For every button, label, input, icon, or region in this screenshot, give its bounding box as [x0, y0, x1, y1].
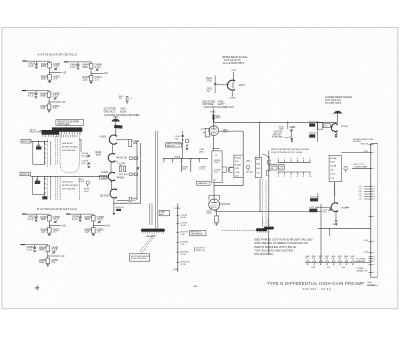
potentiometer R471	[344, 167, 348, 171]
attenuator cell B x10	[22, 214, 67, 236]
scale ruler upper	[278, 161, 311, 163]
svg-text:TO CRT UNIT: TO CRT UNIT	[325, 101, 342, 105]
svg-text:.05 UF: .05 UF	[180, 217, 187, 219]
svg-text:(CATHODE FOLLOWER OUT): (CATHODE FOLLOWER OUT)	[204, 106, 235, 109]
wire box to V474	[334, 182, 336, 196]
svg-text:SIGNAL OUT: SIGNAL OUT	[357, 270, 369, 273]
blue tint block C405	[42, 196, 47, 199]
svg-text:R420A 1M: R420A 1M	[116, 156, 127, 159]
svg-text:INPUT B: INPUT B	[21, 174, 30, 176]
svg-text:IN .05 V/CM POS: IN .05 V/CM POS	[131, 258, 147, 260]
svg-text:4.5-25: 4.5-25	[82, 155, 89, 157]
wire linkage verticals	[155, 131, 157, 229]
resistor R434	[185, 140, 188, 142]
svg-text:2: 2	[290, 158, 291, 160]
svg-text:111K: 111K	[235, 168, 240, 170]
tube V428	[213, 115, 215, 126]
svg-text:4-1.5: 4-1.5	[28, 66, 34, 68]
svg-text:990K: 990K	[85, 219, 91, 221]
svg-text:CATHODE: CATHODE	[202, 103, 214, 106]
svg-text:R418A: R418A	[102, 171, 109, 174]
wire R462 bus vertical	[316, 121, 318, 142]
svg-text:4-1.5: 4-1.5	[28, 96, 34, 98]
switch wafer bar CAL upper	[264, 227, 274, 230]
capacitor C415 pair	[130, 157, 133, 159]
svg-text:R421 R422: R421 R422	[119, 174, 129, 176]
capacitor C463	[318, 123, 323, 130]
svg-text:(GND): (GND)	[173, 269, 179, 271]
svg-text:R440A: R440A	[235, 156, 242, 159]
capacitor C446 on bus	[268, 161, 270, 164]
svg-text:7-45: 7-45	[256, 172, 260, 174]
svg-text:4-25: 4-25	[279, 168, 283, 170]
svg-text:4-1.5: 4-1.5	[70, 67, 76, 69]
tube V414B crescent	[108, 154, 114, 162]
svg-text:3: 3	[373, 168, 374, 170]
svg-text:R481: R481	[312, 256, 316, 258]
caption box RESISTIVE DIVIDER SWITCHES	[56, 120, 84, 126]
svg-text:12AT7: 12AT7	[218, 103, 225, 106]
svg-text:4-1.5: 4-1.5	[27, 250, 33, 252]
capacitor C421 pair	[130, 173, 133, 175]
wire V414B to V418A	[110, 162, 112, 173]
switch box SW440	[234, 155, 243, 178]
transistor V474 crescent	[331, 203, 337, 212]
svg-text:B ATTENUATOR DETAILS: B ATTENUATOR DETAILS	[37, 207, 77, 211]
svg-text:.2-1.5: .2-1.5	[52, 96, 59, 98]
svg-text:A.M.: A.M.	[194, 285, 199, 288]
wire V414A to V414B	[112, 144, 114, 154]
boxed note SEE NOTE	[190, 230, 206, 235]
switch wafer bar SW402 lower	[42, 130, 60, 135]
svg-text:(B) 6DJ8: (B) 6DJ8	[100, 195, 110, 197]
switch envelope B dashed outline	[59, 178, 61, 200]
svg-text:.2-1.5: .2-1.5	[51, 250, 58, 252]
svg-text:R440B: R440B	[235, 165, 242, 167]
svg-text:2: 2	[284, 176, 285, 178]
svg-text:3-12: 3-12	[330, 177, 334, 179]
svg-text:S/N RANGES.: S/N RANGES.	[254, 252, 274, 256]
wire V414A plate right	[116, 139, 129, 141]
wire V474 emitter	[335, 212, 337, 220]
svg-text:X100 POS): X100 POS)	[196, 250, 206, 252]
svg-text:111K: 111K	[40, 108, 46, 110]
tube V418B crescent	[110, 189, 116, 198]
svg-text:(+150V): (+150V)	[229, 98, 236, 100]
svg-text:ATTEN DETAILS: ATTEN DETAILS	[62, 184, 78, 187]
socket pins	[369, 145, 375, 275]
svg-text:111K: 111K	[39, 262, 45, 264]
boxed label C468	[279, 165, 285, 170]
wire cathode V418B	[113, 198, 115, 212]
potentiometers row	[306, 261, 354, 265]
svg-text:(GAIN RANGE): (GAIN RANGE)	[191, 233, 204, 236]
svg-text:(CATHODE COUPLED AMPLIFIER): (CATHODE COUPLED AMPLIFIER)	[104, 114, 140, 117]
wire envelope to C410	[79, 139, 81, 141]
wire time constant bus	[163, 158, 208, 160]
interconnect socket outline	[370, 144, 372, 278]
boxed label R468A	[269, 165, 277, 170]
attenuator cell B x100	[66, 214, 111, 236]
svg-text:GAIN ADJ: GAIN ADJ	[198, 182, 208, 185]
envelope top contact fringe	[62, 135, 77, 138]
svg-text:OUT VIA CF TO: OUT VIA CF TO	[224, 59, 241, 62]
svg-text:INPUT A: INPUT A	[22, 140, 31, 143]
attenuator cell A x100	[64, 61, 109, 83]
svg-text:SEE B1-B2: SEE B1-B2	[62, 182, 73, 184]
svg-text:R480: R480	[305, 256, 309, 258]
capacitor C420 cluster	[115, 161, 121, 166]
attenuator cell A x10	[22, 61, 67, 83]
svg-text:.1 V/CM: .1 V/CM	[173, 208, 181, 210]
svg-text:.05 UF: .05 UF	[180, 225, 187, 227]
svg-text:+100V: +100V	[363, 251, 369, 253]
attenuator cell B x1000	[21, 244, 66, 266]
svg-text:.25 UF: .25 UF	[180, 254, 187, 256]
svg-text:R487: R487	[351, 256, 355, 258]
scale ruler lower	[278, 171, 311, 173]
switch section box V428 cathode	[212, 151, 222, 183]
capacitor C434A	[129, 139, 132, 146]
ground V418B cathode	[113, 212, 116, 214]
svg-text:.2-1.5: .2-1.5	[53, 219, 60, 221]
linkage dashed to cal bar	[222, 229, 256, 231]
transistor Q464 crescent	[331, 124, 337, 132]
svg-text:R444: R444	[256, 159, 260, 161]
resistor R446	[213, 109, 214, 110]
svg-text:R483: R483	[325, 256, 329, 258]
svg-text:+1: +1	[130, 98, 132, 100]
svg-text:(SEL): (SEL)	[246, 160, 251, 162]
svg-text:RESISTOR VALUES SHOWN CHOSEN: RESISTOR VALUES SHOWN CHOSEN	[271, 148, 309, 151]
bracket to divider	[222, 167, 226, 172]
svg-text:.5-3: .5-3	[52, 108, 57, 110]
wire V418A to V418B	[110, 181, 112, 190]
svg-text:UPPER BEAM SIGNAL: UPPER BEAM SIGNAL	[222, 56, 248, 59]
tube V429	[209, 199, 220, 210]
wire pot row baseline	[305, 262, 371, 264]
wire arc SW444 to bus	[262, 154, 270, 160]
svg-text:.1 UF: .1 UF	[180, 234, 186, 236]
connector INPUT B	[20, 172, 31, 176]
wire input B bus	[31, 175, 108, 177]
svg-text:+ 240V: + 240V	[99, 137, 107, 139]
resistor R426 box	[117, 200, 129, 202]
svg-text:C444: C444	[256, 168, 260, 170]
svg-text:R482: R482	[318, 256, 322, 258]
svg-text:R486: R486	[344, 256, 348, 258]
svg-text:111K: 111K	[41, 79, 47, 81]
tube V418A crescent	[108, 172, 114, 180]
capacitor C401 input A	[38, 141, 40, 144]
svg-text:GRID NO.1: GRID NO.1	[104, 112, 117, 114]
svg-text:.5-3: .5-3	[94, 79, 99, 81]
switch line VOLTS/CM	[177, 204, 179, 273]
svg-text:990K: 990K	[82, 67, 88, 69]
svg-text:R484: R484	[331, 256, 335, 258]
wire plate V428 down	[213, 136, 215, 151]
registration cross	[35, 287, 40, 289]
svg-text:990K: 990K	[41, 66, 47, 68]
wire bus to SW444	[259, 122, 261, 157]
svg-text:R470B: R470B	[330, 166, 337, 168]
svg-text:R470A: R470A	[330, 157, 337, 160]
svg-text:A ATTENUATOR DETAILS: A ATTENUATOR DETAILS	[38, 52, 78, 56]
svg-text:.5-3: .5-3	[53, 79, 58, 81]
wire signal to lower beam	[216, 211, 321, 213]
linkage dotted pair SW444 to CAL	[261, 180, 263, 227]
svg-text:S/N 101 - 13.42: S/N 101 - 13.42	[303, 287, 332, 291]
switch contacts input B wafer	[44, 176, 47, 199]
svg-text:100K: 100K	[330, 162, 335, 164]
wire V429 right	[220, 203, 230, 205]
wire SW440 left entry	[229, 168, 234, 172]
boxed label GAIN ADJ switch	[159, 210, 169, 215]
tube V414A crescent	[109, 135, 116, 144]
wire top out bus	[255, 121, 337, 123]
wire switch rotor A	[47, 139, 49, 168]
svg-text:R485: R485	[338, 256, 342, 258]
svg-text:990K: 990K	[39, 250, 45, 252]
wire long mid vertical	[268, 151, 270, 255]
attenuator cell A x1000	[22, 90, 67, 112]
wire Q464 emitter	[335, 131, 338, 134]
svg-text:SWITCHES: SWITCHES	[58, 124, 70, 126]
svg-text:7: 7	[373, 265, 374, 267]
svg-text:R462 47K: R462 47K	[309, 122, 318, 124]
svg-text:6DJ8: 6DJ8	[120, 112, 126, 114]
svg-text:9: 9	[373, 199, 374, 201]
svg-text:V414: V414	[120, 108, 126, 110]
wire mid horizontal	[214, 185, 243, 187]
svg-text:(PLATE BAL): (PLATE BAL)	[272, 136, 283, 139]
svg-text:TYPE D DIFFERENTIAL HIGH-GAI: TYPE D DIFFERENTIAL HIGH-GAIN PREAMP	[267, 281, 364, 286]
svg-text:ALL LETTER UNITS: ALL LETTER UNITS	[223, 62, 245, 65]
svg-text:2ND STAGE: 2ND STAGE	[202, 100, 215, 103]
wire top bus start	[214, 121, 256, 123]
pot row labels	[305, 256, 354, 260]
svg-text:R436A: R436A	[174, 155, 181, 158]
svg-text:CF2044: CF2044	[341, 208, 349, 210]
capacitor C413 plate cap	[115, 117, 117, 119]
switch rotor bar B	[50, 176, 52, 199]
blue tint block R403	[35, 181, 40, 184]
svg-text:990K: 990K	[41, 219, 47, 221]
svg-text:100K: 100K	[256, 164, 261, 166]
wire input B loop	[32, 176, 34, 194]
svg-text:R477: R477	[333, 224, 337, 226]
svg-text:1ST STAGE: 1ST STAGE	[104, 107, 117, 110]
svg-text:SWITCH: SWITCH	[167, 146, 175, 148]
svg-text:.5-3: .5-3	[53, 232, 58, 234]
switch box SW444	[255, 157, 261, 177]
svg-text:.5-3: .5-3	[51, 262, 56, 264]
svg-text:150K: 150K	[182, 169, 187, 171]
svg-text:-C460A: -C460A	[289, 126, 296, 129]
svg-text:ADJ: ADJ	[160, 213, 164, 216]
svg-text:+100: +100	[311, 267, 315, 269]
svg-text:+225V: +225V	[231, 70, 237, 72]
svg-text:111K: 111K	[41, 232, 47, 234]
svg-text:12AT7: 12AT7	[238, 84, 245, 87]
tube V433B crescent	[227, 80, 234, 90]
svg-text:BEAM AMP: BEAM AMP	[356, 260, 366, 263]
svg-text:990K: 990K	[40, 96, 46, 98]
svg-text:+100: +100	[326, 267, 330, 269]
wire cal to socket	[318, 228, 371, 230]
wire input A bus	[31, 140, 48, 142]
switch rotor B dashed	[47, 176, 49, 200]
wire right bus vertical	[136, 141, 138, 201]
svg-text:(5-7): (5-7)	[214, 172, 219, 174]
wire cathode V433B	[231, 91, 233, 96]
connector INPUT A	[21, 139, 31, 143]
blue tint block R401	[36, 146, 41, 149]
svg-text:15-7.3: 15-7.3	[199, 169, 206, 171]
svg-text:+100V: +100V	[101, 177, 108, 179]
switch wafer bar SW402 upper	[52, 127, 82, 131]
svg-text:270K: 270K	[207, 81, 213, 83]
wire divider rail ticks	[268, 156, 271, 158]
svg-text:111K: 111K	[85, 232, 91, 234]
svg-text:1: 1	[284, 158, 285, 160]
plate cap connector top right	[334, 111, 341, 113]
switch position labels	[176, 215, 189, 266]
potentiometer R412	[86, 181, 89, 184]
svg-text:10K: 10K	[132, 200, 136, 202]
svg-text:.2-1.5: .2-1.5	[97, 219, 104, 221]
svg-text:.25 UF: .25 UF	[180, 264, 187, 266]
switch contact teeth	[43, 132, 80, 137]
capacitor C403 input B	[36, 176, 38, 179]
mechanical linkage dashed	[140, 235, 154, 252]
svg-text:TP420A: TP420A	[116, 176, 125, 179]
wire to V474 base	[317, 193, 319, 198]
svg-text:+2M: +2M	[133, 143, 138, 145]
svg-text:LOWER BEAM: LOWER BEAM	[354, 165, 368, 168]
svg-text:FOR VALUES: FOR VALUES	[62, 188, 76, 191]
switch wafer bar VARIABLE	[141, 229, 165, 232]
svg-text:V433: V433	[218, 101, 224, 103]
svg-text:(SEL): (SEL)	[199, 151, 205, 153]
boxed label TIME CONSTANT	[166, 143, 182, 147]
svg-text:2: 2	[373, 152, 374, 154]
svg-text:150K: 150K	[96, 155, 102, 157]
svg-text:2: 2	[373, 241, 374, 243]
svg-text:1: 1	[373, 145, 374, 147]
wire V433B base	[214, 75, 216, 93]
svg-text:+75: +75	[359, 199, 362, 201]
wire to V429	[213, 183, 215, 199]
switch wafer bar CAL lower	[256, 228, 267, 231]
pin labels	[359, 143, 369, 253]
wire to interconnect	[352, 167, 371, 169]
svg-text:.2-1.5: .2-1.5	[53, 66, 60, 68]
svg-text:4.5-25: 4.5-25	[79, 181, 86, 183]
svg-text:6AU6: 6AU6	[206, 212, 212, 215]
capacitor C424	[205, 128, 209, 137]
svg-text:FOR OPTIMUM OUTPUT LEVEL: FOR OPTIMUM OUTPUT LEVEL	[271, 152, 303, 154]
svg-text:AC BAL: AC BAL	[246, 170, 253, 173]
svg-text:4-1.5: 4-1.5	[28, 219, 34, 221]
svg-text:.1 UF: .1 UF	[180, 244, 186, 246]
svg-text:.2-1.5: .2-1.5	[94, 67, 101, 69]
wire pot row to socket	[320, 204, 322, 263]
boxed note SHOWN IN	[130, 254, 150, 261]
svg-text:4-1.5: 4-1.5	[72, 219, 78, 221]
svg-text:CF2044: CF2044	[341, 126, 349, 128]
wire input A loop	[32, 141, 34, 164]
svg-text:FOR VALUES: FOR VALUES	[62, 149, 76, 152]
svg-text:SEE A1-A2: SEE A1-A2	[62, 142, 73, 145]
potentiometer R441	[246, 166, 249, 169]
resistor stubs on bus	[163, 158, 199, 162]
wire output to socket pin 2	[341, 151, 370, 153]
svg-text:+100: +100	[341, 267, 345, 269]
svg-text:SELECTOR: SELECTOR	[30, 132, 42, 134]
switch box output selector	[329, 155, 341, 181]
svg-text:+167V: +167V	[200, 129, 206, 131]
svg-text:111K: 111K	[82, 79, 88, 81]
boxed label 475	[323, 124, 330, 128]
switch contacts input A wafer	[44, 141, 47, 165]
switch envelope dashed outline	[60, 133, 79, 173]
switch rotor bar A	[50, 141, 52, 165]
wire V428 plate to SW440	[219, 130, 243, 132]
wire SW444 down	[259, 179, 261, 212]
label +100V boxed	[100, 176, 107, 179]
resistor R450	[216, 210, 218, 216]
svg-text:V428: V428	[223, 132, 229, 134]
svg-text:HTR 6.3V: HTR 6.3V	[360, 143, 369, 145]
capacitor C460A trimmer	[290, 129, 292, 131]
boxed label GAIN ADJ	[197, 181, 211, 185]
svg-text:.5-3: .5-3	[97, 232, 102, 234]
svg-text:8: 8	[373, 272, 374, 274]
svg-text:1: 1	[373, 216, 374, 218]
svg-text:100K: 100K	[279, 129, 284, 131]
svg-text:6: 6	[373, 261, 374, 263]
blue tint block C413	[114, 125, 122, 129]
svg-text:ATTEN DETAILS: ATTEN DETAILS	[62, 146, 78, 149]
svg-text:3: 3	[373, 253, 374, 255]
svg-text:+225V: +225V	[363, 151, 369, 153]
